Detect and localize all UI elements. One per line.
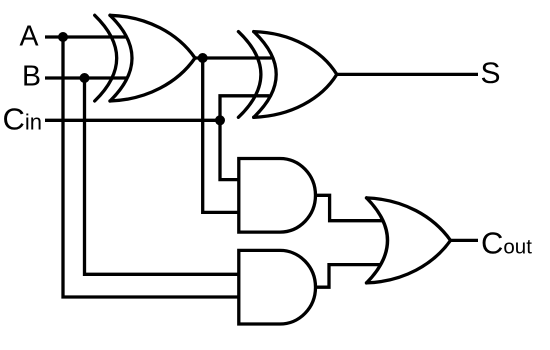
wire B input — [45, 76, 127, 79]
node B junction dot — [80, 73, 90, 83]
and-gate U4 (A and B) — [239, 250, 316, 324]
wire S output — [337, 73, 478, 76]
node XOR1 output junction dot — [198, 53, 208, 63]
wire XOR1 output down to AND1 lower input — [203, 58, 239, 212]
svg-text:Cout: Cout — [481, 226, 532, 261]
wire Cin input — [45, 119, 220, 122]
wire Cin up to XOR2 lower input — [220, 96, 269, 121]
wire A vertical to AND2 lower input — [63, 37, 239, 297]
and-gate U3 ((A xor B) and Cin) — [239, 159, 316, 233]
wire A input — [45, 35, 127, 38]
svg-text:A: A — [20, 21, 39, 53]
wire AND2 output to OR lower input — [316, 265, 381, 288]
wire Cout output — [451, 239, 479, 242]
node Cin junction dot — [215, 115, 225, 125]
node A junction dot — [58, 32, 68, 42]
wire XOR1 output to XOR2 upper input — [195, 56, 272, 59]
or-gate U5 (carry out) — [367, 198, 451, 283]
wire Cin down to AND1 upper input — [220, 120, 239, 179]
xor-gate U2 (sum S) — [238, 32, 336, 118]
svg-text:S: S — [481, 57, 501, 90]
wire B vertical to AND2 upper input — [85, 78, 239, 274]
wire AND1 output to OR upper input — [316, 195, 384, 220]
xor-gate U1 (A xor B) — [95, 15, 195, 101]
svg-text:Cin: Cin — [3, 101, 43, 136]
svg-text:B: B — [22, 61, 41, 93]
